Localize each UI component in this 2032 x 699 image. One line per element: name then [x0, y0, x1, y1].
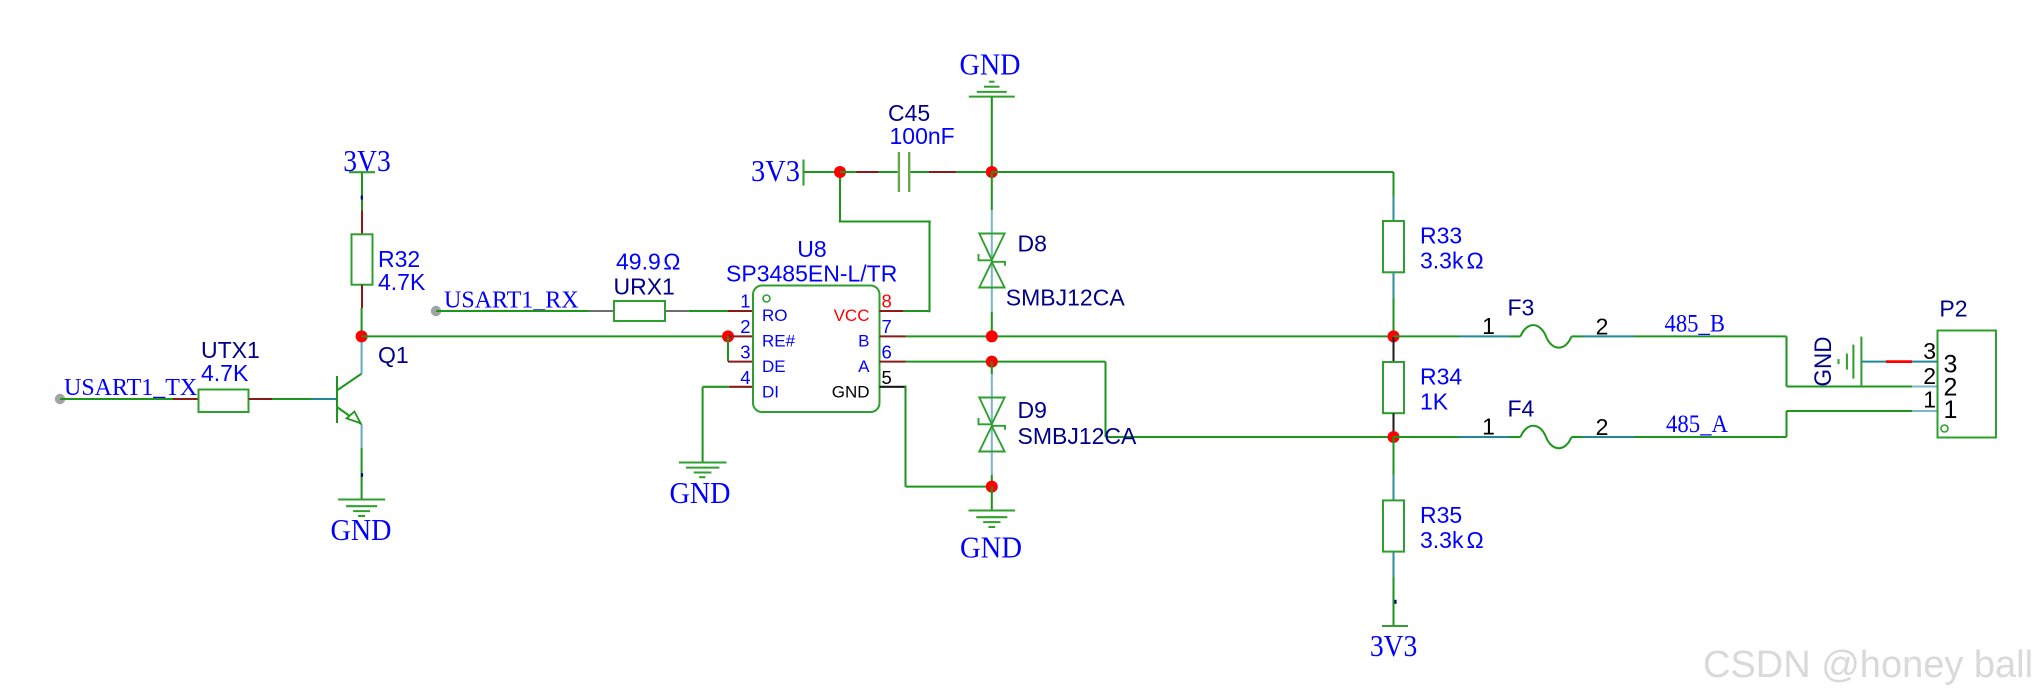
svg-text:P2: P2 [1939, 296, 1967, 322]
svg-text:GND: GND [832, 383, 870, 402]
wire VCC pin8 to 3V3 [839, 172, 931, 312]
svg-text:3V3: 3V3 [1370, 628, 1418, 663]
ground GND below Q1 [331, 500, 392, 548]
wire B node to R34 [1392, 337, 1394, 362]
svg-text:D8: D8 [1018, 231, 1047, 257]
svg-text:B: B [858, 332, 869, 351]
svg-text:7: 7 [882, 316, 892, 337]
junction node R34/A/F4 [1388, 431, 1400, 443]
wire node to D8 [991, 172, 993, 312]
wire D8 to B net [991, 312, 993, 336]
svg-text:USART1_TX: USART1_TX [64, 375, 197, 401]
svg-text:GND: GND [1810, 337, 1837, 387]
svg-text:2: 2 [740, 316, 750, 337]
wire R35 to 3V3 bottom [1394, 552, 1397, 626]
svg-text:R33: R33 [1420, 223, 1462, 249]
svg-text:100nF: 100nF [890, 123, 955, 149]
capacitor C45 100nF [888, 100, 955, 192]
svg-text:1: 1 [1482, 313, 1495, 339]
wire A node to D9 [991, 362, 993, 475]
svg-text:U8: U8 [797, 236, 826, 262]
wire R32 to node [361, 285, 363, 334]
svg-text:2: 2 [1596, 414, 1609, 440]
junction node U8 RE# pin2 [722, 330, 753, 342]
svg-text:F4: F4 [1508, 396, 1535, 422]
svg-text:8: 8 [882, 291, 892, 312]
diode D9 SMBJ12CA [979, 397, 1138, 452]
resistor R34 1K [1383, 362, 1462, 415]
wire B net pin7 to R33 node [880, 335, 1394, 337]
wire DI pin4 to ground [703, 387, 753, 462]
svg-text:CSDN @honey ball: CSDN @honey ball [1703, 644, 2032, 686]
transistor Q1 [337, 341, 409, 448]
svg-text:3: 3 [1923, 338, 1936, 364]
svg-text:4.7K: 4.7K [378, 269, 426, 295]
junction node D8/B [986, 330, 998, 342]
svg-text:2: 2 [1923, 363, 1936, 389]
wire D9 to GND node [991, 475, 993, 487]
wire Q1 emitter to ground [361, 448, 363, 499]
svg-text:1: 1 [1944, 396, 1958, 424]
svg-text:1K: 1K [1420, 389, 1449, 415]
power port 3V3 middle [751, 153, 840, 188]
svg-text:49.9Ω: 49.9Ω [616, 249, 680, 275]
svg-text:D9: D9 [1018, 397, 1047, 423]
svg-text:3: 3 [740, 342, 750, 363]
resistor R35 3.3kohm [1383, 500, 1484, 553]
svg-text:GND: GND [331, 512, 392, 547]
resistor R32 4.7K [352, 234, 426, 295]
ground GND below DI [670, 463, 731, 511]
junction node D9/A [986, 356, 998, 368]
resistor URX1 49.9ohm [614, 249, 681, 322]
power port GND top [960, 47, 1021, 173]
fuse F3 [1394, 295, 1635, 348]
resistor R33 3.3kohm [1383, 221, 1484, 274]
junction node Q1 collector [356, 330, 368, 342]
svg-text:R35: R35 [1420, 502, 1462, 528]
junction node R33/B/F3 [1388, 330, 1400, 342]
wire UTX1 to Q1 base [249, 398, 337, 400]
op-amp U8 SP3485EN-L/TR body [726, 236, 897, 412]
fuse F4 [1394, 396, 1635, 449]
ground GND at P2 [1810, 337, 1861, 387]
svg-text:1: 1 [1482, 414, 1495, 440]
svg-text:1: 1 [740, 291, 750, 312]
resistor UTX1 4.7K [199, 337, 260, 412]
wire 485_B to P2 pin2 [1634, 336, 1938, 386]
svg-text:3.3kΩ: 3.3kΩ [1420, 527, 1484, 553]
wire A node to R35 [1392, 437, 1394, 500]
wire GND node to R33 [992, 172, 1394, 221]
net label 485_B [1665, 311, 1726, 338]
svg-text:Q1: Q1 [378, 342, 409, 368]
net label USART1_RX [444, 288, 579, 314]
svg-text:485_B: 485_B [1665, 311, 1726, 338]
svg-text:SMBJ12CA: SMBJ12CA [1018, 423, 1138, 449]
connector P2 [1938, 296, 1997, 438]
svg-text:485_A: 485_A [1666, 411, 1728, 438]
wire C45 to GND node [910, 171, 991, 173]
svg-text:R34: R34 [1420, 364, 1462, 390]
wire URX1 to U8 RO pin1 [665, 310, 753, 312]
ground GND below D9 [960, 487, 1022, 565]
svg-text:3.3kΩ: 3.3kΩ [1420, 248, 1484, 274]
wire node to U8 RE# [362, 335, 727, 337]
junction node GND/C45/D8 [986, 166, 998, 178]
wire 3V3 node to C45 [840, 171, 898, 173]
U8 pin names [762, 306, 870, 402]
svg-text:VCC: VCC [834, 306, 870, 325]
P2 pin names inside [1944, 350, 1958, 424]
P2 pin numbers outside [1923, 338, 1936, 413]
svg-text:3V3: 3V3 [751, 153, 800, 188]
wire R33 to B node [1392, 272, 1394, 336]
svg-text:RE#: RE# [762, 332, 796, 351]
svg-text:4: 4 [740, 367, 750, 388]
svg-text:GND: GND [670, 475, 731, 510]
svg-text:4.7K: 4.7K [201, 360, 249, 386]
wire R34 to A node [1392, 413, 1394, 437]
svg-text:RO: RO [762, 306, 788, 325]
net label 485_A [1666, 411, 1728, 438]
svg-text:2: 2 [1596, 314, 1609, 340]
svg-text:SP3485EN-L/TR: SP3485EN-L/TR [726, 261, 897, 287]
svg-text:A: A [858, 357, 870, 376]
svg-text:GND: GND [960, 530, 1022, 565]
svg-text:SMBJ12CA: SMBJ12CA [1006, 285, 1126, 311]
svg-text:DE: DE [762, 357, 786, 376]
power port 3V3 bottom [1370, 626, 1418, 663]
junction node 3V3/C45 [834, 166, 846, 178]
wire GND pin5 [880, 386, 992, 487]
node USART1_TX port dot [55, 394, 65, 404]
watermark [1703, 644, 2032, 686]
power port 3V3 top left [343, 143, 391, 234]
svg-text:F3: F3 [1508, 295, 1535, 321]
wire RE# tie to DE pin3 [728, 336, 753, 361]
node USART1_RX port dot [431, 306, 441, 316]
svg-text:URX1: URX1 [614, 274, 675, 300]
wire USART1_TX to UTX1 [60, 398, 199, 400]
svg-text:DI: DI [762, 383, 779, 402]
svg-text:1: 1 [1923, 387, 1936, 413]
wire USART1_RX to URX1 [436, 310, 614, 312]
junction node D9/GND [986, 481, 998, 493]
svg-text:6: 6 [882, 342, 892, 363]
diode D8 SMBJ12CA [979, 231, 1126, 311]
net label USART1_TX [64, 375, 197, 401]
svg-text:5: 5 [882, 367, 892, 388]
wire GND to P2 pin3 [1861, 361, 1937, 363]
svg-text:GND: GND [960, 47, 1021, 82]
wire A net pin6 [880, 362, 1394, 437]
U8 pin numbers [740, 291, 892, 389]
wire 485_A to P2 pin1 [1634, 411, 1938, 437]
svg-text:USART1_RX: USART1_RX [444, 288, 579, 314]
